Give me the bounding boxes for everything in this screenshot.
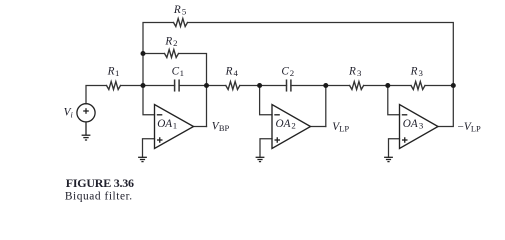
ground of OA1: [138, 157, 147, 161]
capacitor C2: [287, 80, 291, 91]
svg-text:R1: R1: [107, 66, 120, 79]
wire OA3 noninverting to ground: [389, 139, 400, 158]
svg-text:OA2: OA2: [276, 118, 296, 131]
resistor R4: [226, 82, 240, 90]
svg-text:VLP: VLP: [332, 121, 349, 134]
wire R4 to C2: [240, 85, 287, 87]
ground of OA3: [384, 157, 393, 161]
svg-text:R5: R5: [173, 4, 187, 17]
node R2/left vertical: [141, 51, 146, 56]
wire OA2 output node up: [325, 86, 327, 127]
wire top feedback right segment: [188, 23, 454, 86]
node OA2 output: [323, 83, 328, 88]
wire C2 to R3 first: [291, 85, 350, 87]
resistor R2: [165, 50, 179, 58]
wire OA1 noninverting to ground: [143, 139, 155, 158]
svg-text:R4: R4: [225, 66, 239, 79]
wire R2 left: [143, 53, 165, 55]
svg-text:−VLP: −VLP: [458, 121, 482, 134]
wire R3 second to right node: [425, 85, 453, 87]
op-amp OA3: [400, 105, 439, 149]
svg-text:R3: R3: [348, 66, 362, 79]
op-amp OA2: [272, 105, 311, 149]
wire OA3 inverting input: [388, 86, 400, 115]
wire top feedback left segment: [143, 23, 174, 86]
op-amp OA1: [155, 105, 194, 149]
ground of Vi: [82, 122, 91, 140]
svg-text:C1: C1: [172, 66, 184, 79]
wire OA2 output: [311, 126, 326, 128]
wire OA2 noninverting to ground: [260, 139, 272, 158]
wire OA1 inverting input: [143, 86, 155, 115]
node A inverting OA1: [141, 83, 146, 88]
svg-text:C2: C2: [281, 66, 294, 79]
wire R1 to node A: [121, 85, 175, 87]
wire R2 right down to OA1 output node: [179, 54, 207, 127]
node OA2 inverting: [257, 83, 262, 88]
wire OA1 output: [194, 126, 207, 128]
resistor R3 first: [350, 82, 364, 90]
svg-text:Vi: Vi: [64, 106, 74, 119]
node B OA1 output: [204, 83, 209, 88]
svg-text:OA1: OA1: [157, 118, 177, 131]
wire C1 to node B: [179, 85, 226, 87]
node junction dots: [141, 51, 456, 88]
node OA3 output: [451, 83, 456, 88]
wire OA3 output: [438, 86, 453, 127]
source Vi: [77, 104, 95, 122]
svg-text:Biquad filter.: Biquad filter.: [65, 191, 133, 203]
svg-text:OA3: OA3: [403, 118, 424, 131]
svg-text:VBP: VBP: [212, 120, 230, 133]
resistor R5: [174, 19, 188, 27]
svg-text:R3: R3: [410, 66, 424, 79]
resistor R1: [107, 82, 121, 90]
wire Vi to R1: [86, 86, 107, 104]
resistor R3 second: [411, 82, 425, 90]
wire between R3 resistors: [364, 85, 411, 87]
capacitor C1: [175, 80, 180, 91]
ground of OA2: [256, 157, 265, 161]
svg-text:R2: R2: [164, 36, 177, 49]
svg-text:FIGURE 3.36: FIGURE 3.36: [66, 176, 134, 190]
wire OA2 inverting input: [260, 86, 272, 115]
node OA3 inverting: [385, 83, 390, 88]
